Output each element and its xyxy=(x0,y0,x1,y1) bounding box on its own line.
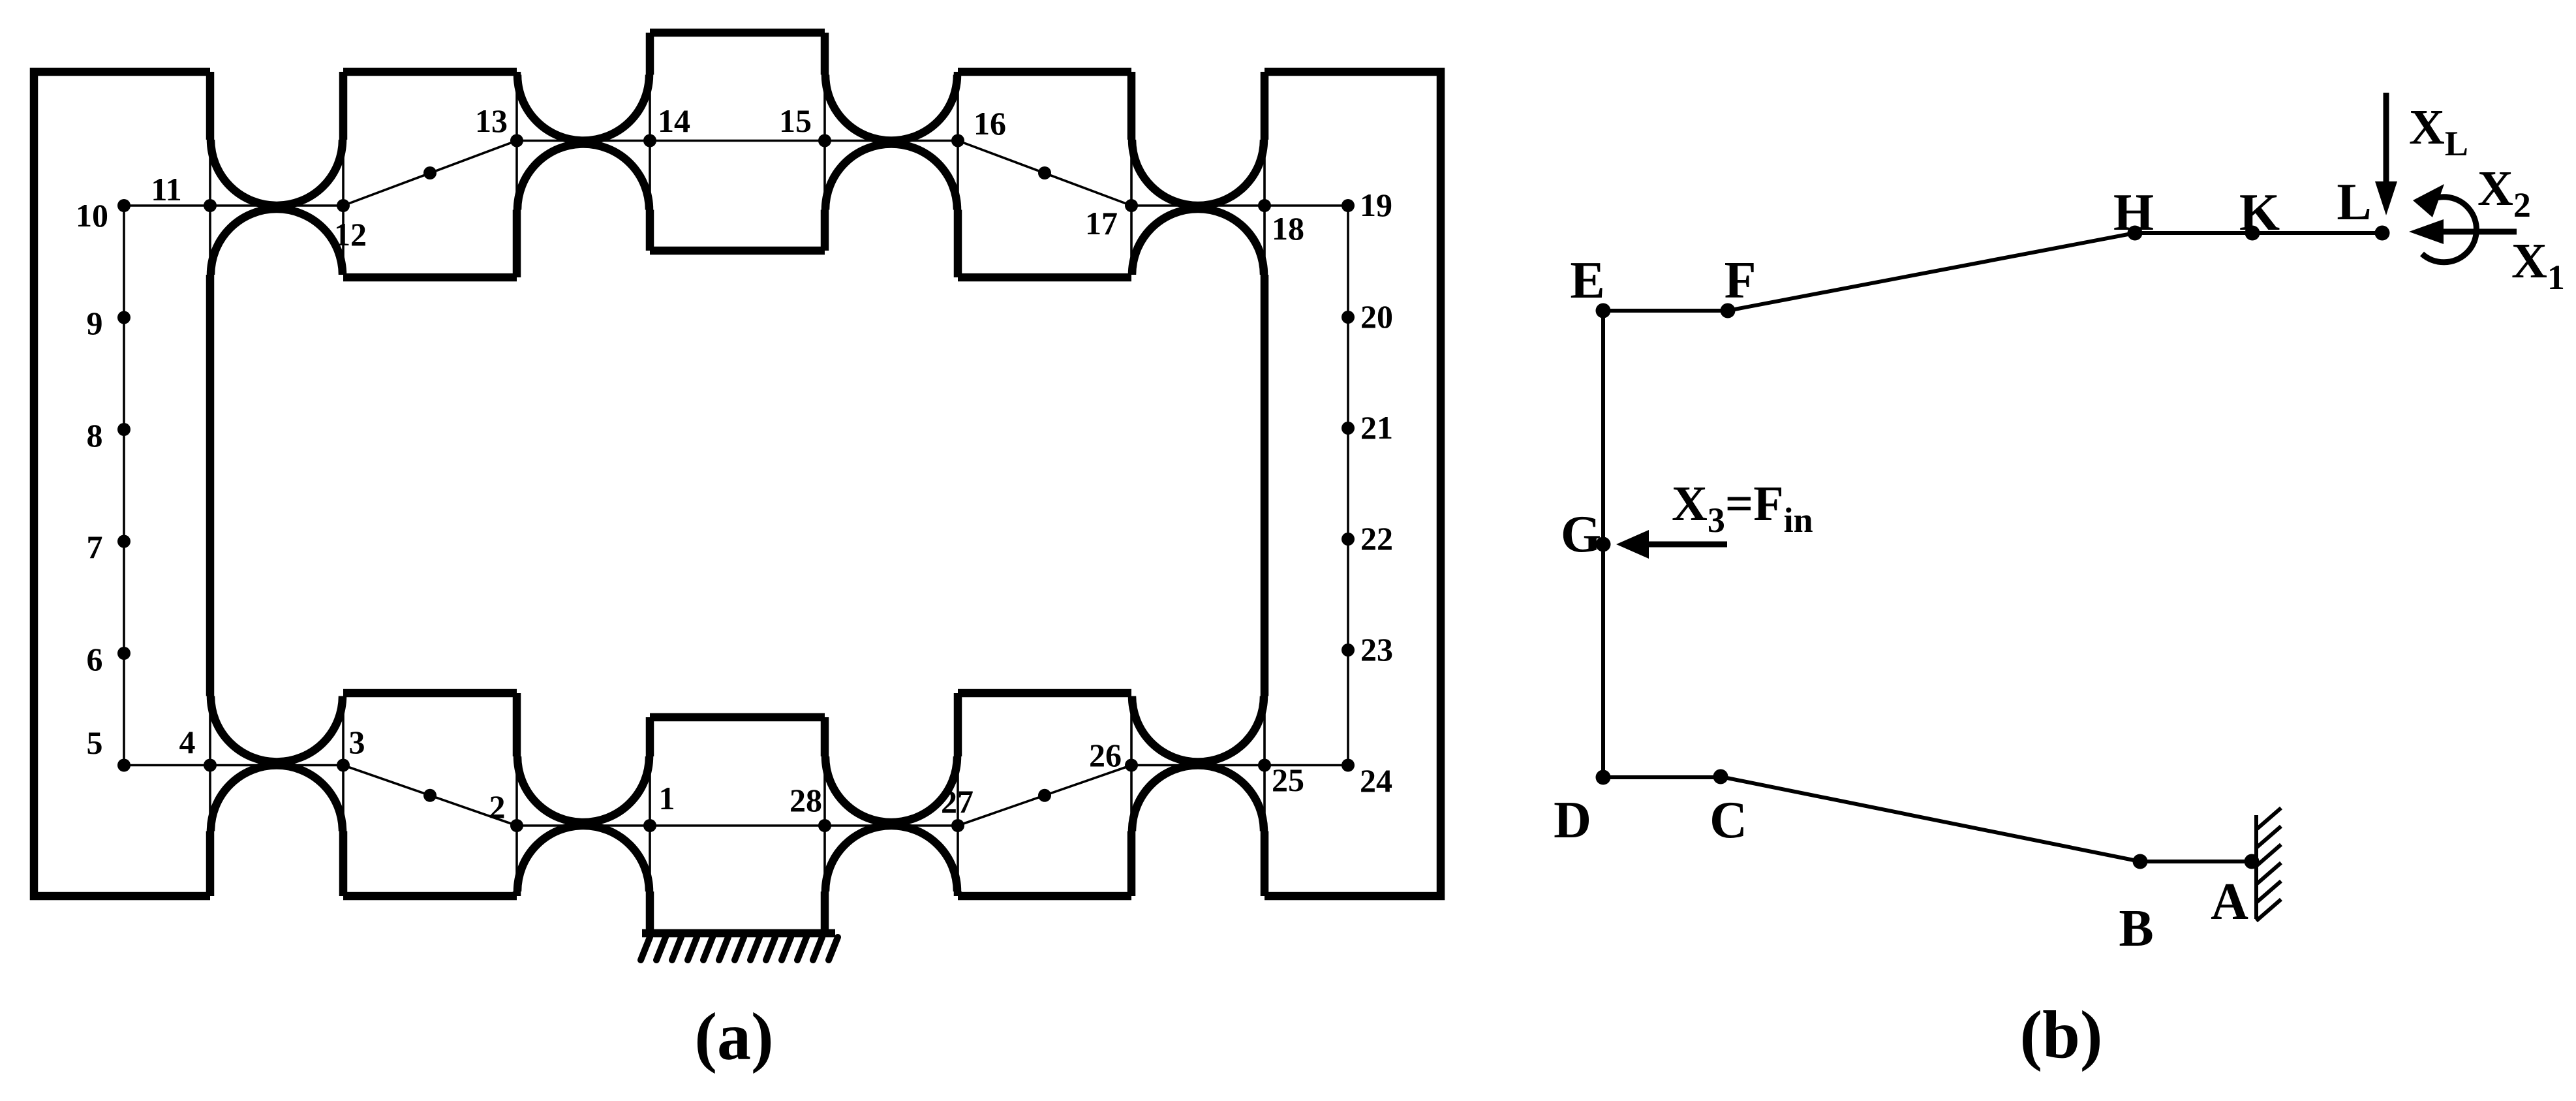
svg-text:XL: XL xyxy=(2409,100,2468,163)
svg-text:(a): (a) xyxy=(694,999,773,1074)
node 8 xyxy=(117,423,130,436)
centerline wire 5-6-7-8-9-10 xyxy=(123,206,125,766)
link line 16-17 xyxy=(958,141,1131,206)
centerline wire 3-4-5 xyxy=(124,764,343,767)
node 24 xyxy=(1342,759,1355,772)
flexure hinge A upper notch arc xyxy=(211,140,343,206)
svg-text:25: 25 xyxy=(1272,762,1304,798)
flexure hinge D flank section lines xyxy=(1131,140,1265,275)
joint E xyxy=(1596,303,1611,318)
link E-F xyxy=(1603,309,1728,313)
joint A xyxy=(2245,854,2260,869)
flexure hinge E lower notch arc xyxy=(211,766,343,831)
flexure hinge D lower notch arc xyxy=(1132,209,1264,275)
flexure hinge F lower notch arc xyxy=(517,826,649,892)
lower-right arm block (nodes 27-26) xyxy=(958,693,1131,896)
flexure hinge B lower notch arc xyxy=(517,144,649,209)
svg-text:13: 13 xyxy=(475,102,508,139)
link D-C xyxy=(1603,775,1721,779)
flexure hinge C upper notch arc xyxy=(825,75,957,141)
node 3 xyxy=(337,759,350,772)
flexure hinge G upper notch arc xyxy=(825,756,957,822)
node 5 xyxy=(117,759,130,772)
node 28 xyxy=(818,819,831,832)
flexure hinge C lower notch arc xyxy=(825,144,957,209)
node 18 xyxy=(1258,199,1271,212)
svg-text:14: 14 xyxy=(658,102,690,139)
svg-text:A: A xyxy=(2211,873,2248,931)
node 13 xyxy=(510,134,523,147)
node 7 xyxy=(117,535,130,548)
node 11 xyxy=(204,199,217,212)
flexure hinge G flank section lines xyxy=(825,756,958,892)
joint K xyxy=(2245,226,2260,241)
force arrow X_L (downward at L) xyxy=(2384,93,2389,181)
svg-text:1: 1 xyxy=(659,780,675,816)
joint F xyxy=(1721,303,1736,318)
svg-text:9: 9 xyxy=(87,305,103,341)
centerline wire 10-11-12 xyxy=(124,204,343,207)
node 12 xyxy=(337,199,350,212)
joint C xyxy=(1713,769,1728,784)
svg-text:28: 28 xyxy=(790,782,822,818)
svg-text:18: 18 xyxy=(1272,210,1304,247)
node 2 xyxy=(510,819,523,832)
svg-text:21: 21 xyxy=(1360,409,1393,446)
centerline wire 17-18-19 xyxy=(1131,204,1348,207)
svg-text:22: 22 xyxy=(1360,520,1393,557)
node 1 xyxy=(643,819,656,832)
moment arrow X_2 (circular) xyxy=(2422,197,2476,262)
flexure hinge A flank section lines xyxy=(210,140,343,275)
svg-text:23: 23 xyxy=(1360,631,1393,668)
upper-left arm block (nodes 12-13) xyxy=(343,72,517,277)
node 20 xyxy=(1342,311,1355,324)
flexure hinge F flank section lines xyxy=(517,756,650,892)
right rigid block xyxy=(1265,72,1441,896)
node m1 xyxy=(423,166,437,179)
centerline wire 24-25-26 xyxy=(1131,764,1348,767)
node 22 xyxy=(1342,533,1355,546)
wall hatching xyxy=(2256,808,2281,921)
input force arrow X_3 = F_in at G xyxy=(1649,542,1727,548)
svg-text:20: 20 xyxy=(1360,298,1393,335)
ground hatching (fixed support) xyxy=(641,937,838,960)
node m4 xyxy=(423,789,437,802)
joint D xyxy=(1596,770,1611,785)
svg-text:C: C xyxy=(1710,792,1747,849)
node 27 xyxy=(951,819,964,832)
link line 2-3 xyxy=(343,766,517,826)
node 9 xyxy=(117,311,130,324)
flexure hinge C flank section lines xyxy=(825,75,958,210)
node 26 xyxy=(1125,759,1138,772)
svg-text:26: 26 xyxy=(1089,737,1122,773)
svg-text:7: 7 xyxy=(87,529,103,565)
joint L xyxy=(2375,226,2390,241)
svg-text:G: G xyxy=(1561,506,1601,563)
link C-B xyxy=(1721,777,2140,861)
svg-text:11: 11 xyxy=(151,171,181,208)
node 19 xyxy=(1342,199,1355,212)
svg-text:5: 5 xyxy=(87,724,103,761)
svg-text:16: 16 xyxy=(974,105,1006,142)
svg-text:6: 6 xyxy=(87,641,103,677)
svg-text:24: 24 xyxy=(1360,762,1392,799)
svg-text:(b): (b) xyxy=(2019,997,2102,1072)
link line 12-13 xyxy=(343,141,517,206)
flexure hinge E upper notch arc xyxy=(211,696,343,762)
force arrow X_1 (leftward at L) xyxy=(2444,229,2517,235)
centerline wire 13-14-15-16 xyxy=(517,140,958,142)
node 25 xyxy=(1258,759,1271,772)
lower-left arm block (nodes 3-2) xyxy=(343,693,517,896)
flexure hinge A lower notch arc xyxy=(211,209,343,275)
node 10 xyxy=(117,199,130,212)
svg-text:D: D xyxy=(1554,792,1591,849)
svg-text:F: F xyxy=(1725,252,1756,309)
svg-text:X3=Fin: X3=Fin xyxy=(1672,476,1813,540)
svg-text:2: 2 xyxy=(489,788,506,825)
link E-G-D xyxy=(1601,311,1605,777)
flexure hinge D upper notch arc xyxy=(1132,140,1264,206)
svg-text:B: B xyxy=(2119,900,2153,957)
node 16 xyxy=(951,134,964,147)
node 6 xyxy=(117,647,130,660)
node m2 xyxy=(1038,166,1051,179)
svg-text:3: 3 xyxy=(349,724,365,760)
left rigid block xyxy=(34,72,210,896)
node 23 xyxy=(1342,644,1355,657)
centerline wire 19-20-21-22-23-24 xyxy=(1347,206,1349,766)
link F-H xyxy=(1728,233,2135,311)
node 17 xyxy=(1125,199,1138,212)
node m3 xyxy=(1038,789,1051,802)
link line 26-27 xyxy=(958,766,1131,826)
svg-text:17: 17 xyxy=(1085,205,1118,241)
svg-text:10: 10 xyxy=(76,197,108,234)
node 4 xyxy=(204,759,217,772)
node 14 xyxy=(643,134,656,147)
svg-text:27: 27 xyxy=(941,783,974,820)
svg-text:19: 19 xyxy=(1360,187,1392,223)
flexure hinge E flank section lines xyxy=(210,696,343,831)
svg-text:15: 15 xyxy=(779,102,812,139)
svg-text:X2: X2 xyxy=(2477,161,2531,225)
flexure hinge B flank section lines xyxy=(517,75,650,210)
joint B xyxy=(2133,854,2148,869)
upper-right arm block (nodes 16-17) xyxy=(958,72,1131,277)
flexure hinge H upper notch arc xyxy=(1132,696,1264,762)
fixed wall at A xyxy=(2254,815,2258,919)
bottom middle rigid block (fixed) xyxy=(642,717,835,933)
svg-text:4: 4 xyxy=(179,724,196,760)
joint H xyxy=(2128,226,2143,241)
link H-K-L xyxy=(2135,231,2382,235)
flexure hinge H flank section lines xyxy=(1131,696,1265,831)
joint G xyxy=(1596,537,1611,552)
top middle rigid block xyxy=(650,33,825,251)
node 21 xyxy=(1342,422,1355,435)
svg-text:L: L xyxy=(2337,174,2371,231)
flexure hinge F upper notch arc xyxy=(517,756,649,822)
link B-A xyxy=(2140,860,2252,863)
centerline wire 27-28-1-2 xyxy=(517,824,958,827)
node 15 xyxy=(818,134,831,147)
flexure hinge B upper notch arc xyxy=(517,75,649,141)
svg-text:12: 12 xyxy=(334,216,367,253)
svg-text:X1: X1 xyxy=(2511,234,2565,297)
flexure hinge H lower notch arc xyxy=(1132,766,1264,831)
svg-text:H: H xyxy=(2113,184,2154,241)
flexure hinge G lower notch arc xyxy=(825,826,957,892)
svg-text:K: K xyxy=(2239,184,2280,241)
svg-text:8: 8 xyxy=(87,417,103,454)
svg-text:E: E xyxy=(1570,252,1604,309)
